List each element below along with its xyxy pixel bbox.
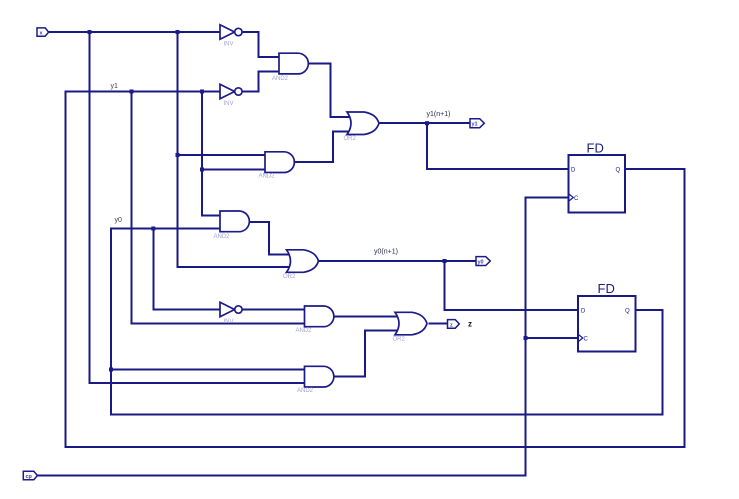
svg-text:D: D [571, 168, 576, 174]
svg-text:Q: Q [616, 168, 621, 174]
svg-text:AND2: AND2 [214, 234, 231, 240]
svg-text:cp: cp [26, 474, 33, 480]
svg-text:FD: FD [598, 281, 615, 296]
svg-text:y0: y0 [478, 260, 484, 266]
svg-text:z: z [450, 322, 453, 328]
svg-text:INV: INV [224, 319, 234, 325]
svg-text:y0(n+1): y0(n+1) [374, 249, 398, 256]
svg-text:D: D [581, 309, 586, 315]
svg-text:FD: FD [587, 141, 604, 156]
svg-text:AND2: AND2 [272, 76, 289, 82]
svg-text:y1(n+1): y1(n+1) [427, 111, 451, 118]
svg-text:Q: Q [625, 309, 630, 315]
svg-text:AND2: AND2 [259, 174, 276, 180]
svg-text:OR2: OR2 [344, 136, 357, 142]
svg-text:OR2: OR2 [393, 337, 406, 343]
svg-text:y0: y0 [115, 217, 123, 224]
svg-text:OR2: OR2 [283, 274, 296, 280]
svg-text:y1: y1 [111, 83, 119, 90]
svg-text:C: C [574, 196, 579, 202]
svg-text:z: z [468, 320, 472, 329]
svg-text:INV: INV [224, 101, 234, 107]
svg-text:AND2: AND2 [297, 388, 314, 394]
svg-text:INV: INV [224, 42, 234, 48]
svg-text:y1: y1 [472, 122, 478, 128]
svg-text:AND2: AND2 [296, 328, 313, 334]
svg-text:C: C [584, 337, 589, 343]
